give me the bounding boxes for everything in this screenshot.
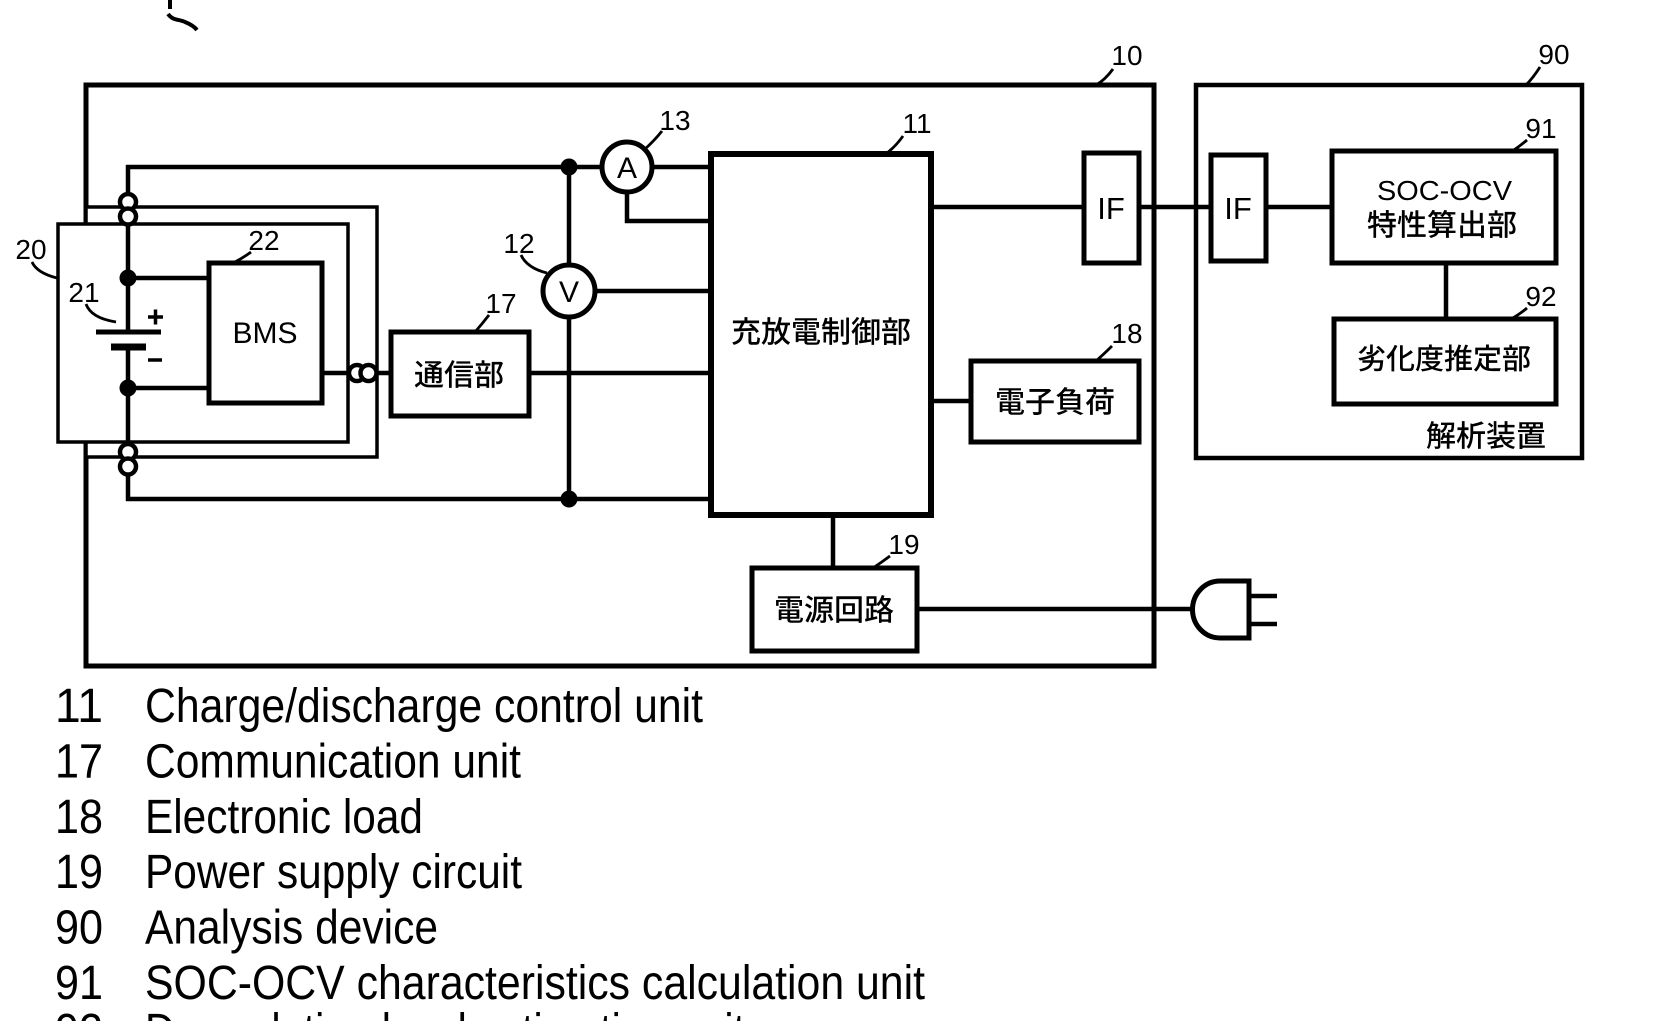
label 12 leader: [521, 255, 547, 273]
wire: ammeter bottom loop: [627, 191, 716, 221]
svg-text:90: 90: [55, 902, 103, 955]
svg-text:13: 13: [659, 105, 690, 136]
label 92 leader: [1511, 308, 1527, 319]
wire: communication unit to control unit: [524, 371, 716, 376]
communication unit text 通信部: [415, 360, 503, 388]
wire: battery + vertical: [126, 165, 131, 332]
svg-text:11: 11: [902, 108, 931, 139]
voltmeter 12: [543, 265, 595, 317]
svg-text:A: A: [617, 152, 637, 185]
connector contact 1: [120, 194, 136, 210]
battery minus sign: [148, 358, 162, 362]
junction node battery +: [120, 270, 137, 287]
svg-text:Degradation level estimation u: Degradation level estimation unit: [145, 1005, 745, 1021]
battery cell 21 minus plate: [111, 344, 146, 351]
wire: control unit to power supply circuit: [831, 511, 836, 573]
svg-text:20: 20: [15, 234, 46, 265]
label 21 leader: [86, 304, 116, 322]
figure number leader (cropped): [168, 0, 197, 30]
label 19 leader: [873, 556, 890, 568]
label 18 leader: [1096, 346, 1112, 361]
svg-text:Electronic load: Electronic load: [145, 791, 423, 844]
svg-text:17: 17: [55, 735, 103, 788]
inner wiring-harness box (unlabeled): [86, 207, 377, 457]
connector contact 2: [120, 209, 136, 225]
svg-text:SOC-OCV characteristics calcul: SOC-OCV characteristics calculation unit: [145, 957, 925, 1010]
IF box (analysis side): [1211, 155, 1266, 261]
analysis device text 解析装置: [1427, 421, 1545, 449]
wire: IF to IF across boxes: [1135, 205, 1215, 210]
svg-text:22: 22: [248, 225, 279, 256]
svg-text:Communication unit: Communication unit: [145, 735, 521, 788]
battery cell 21 plus plate: [96, 330, 161, 335]
svg-text:Charge/discharge control unit: Charge/discharge control unit: [145, 680, 703, 733]
wire: control unit to IF: [927, 205, 1087, 210]
SOC-OCV characteristics calc text 特性算出部: [1368, 210, 1516, 238]
svg-text:Power supply circuit: Power supply circuit: [145, 846, 522, 899]
degradation estimation unit box 92: [1334, 319, 1556, 404]
svg-text:11: 11: [55, 680, 103, 733]
svg-text:10: 10: [1111, 40, 1142, 71]
wire: top rail from battery to ammeter: [126, 165, 603, 170]
svg-text:21: 21: [68, 277, 99, 308]
svg-text:12: 12: [503, 228, 534, 259]
power supply circuit box 19: [752, 568, 917, 651]
svg-text:Analysis device: Analysis device: [145, 902, 438, 955]
junction node bottom rail/voltmeter: [561, 491, 578, 508]
wire: voltmeter branch vertical: [567, 165, 572, 266]
label 11 leader: [887, 136, 903, 153]
charge/discharge control unit text 充放電制御部: [732, 317, 910, 345]
label 20 leader: [32, 262, 57, 278]
svg-text:91: 91: [1525, 113, 1556, 144]
svg-text:17: 17: [485, 288, 516, 319]
connector contact 5: [349, 365, 365, 381]
wire: BMS + sense: [126, 276, 214, 281]
wire: control unit to electronic load: [927, 399, 976, 404]
svg-text:19: 19: [55, 846, 103, 899]
analysis device box 90: [1196, 85, 1582, 458]
wire: box91 to box92: [1444, 258, 1449, 324]
electronic load box 18: [971, 361, 1139, 442]
svg-text:18: 18: [1111, 318, 1142, 349]
svg-text:IF: IF: [1224, 191, 1252, 226]
charge/discharge control unit box 11: [711, 154, 931, 515]
wire: IF to SOC-OCV unit: [1262, 205, 1337, 210]
outer system box 10: [86, 85, 1154, 666]
ammeter 13: [602, 142, 652, 192]
wire: BMS - sense: [126, 386, 214, 391]
label 22 leader: [233, 252, 251, 263]
svg-text:V: V: [559, 276, 579, 309]
AC plug: [1193, 581, 1250, 638]
power supply circuit text 電源回路: [776, 595, 893, 623]
BMS box 22: [209, 263, 322, 403]
svg-text:19: 19: [888, 529, 919, 560]
svg-text:BMS: BMS: [232, 317, 297, 350]
wire: power supply circuit to plug: [912, 607, 1196, 612]
junction node top rail/voltmeter: [561, 159, 578, 176]
wire: voltmeter to control unit: [594, 289, 716, 294]
svg-text:92: 92: [55, 1005, 103, 1021]
svg-text:18: 18: [55, 791, 103, 844]
IF box (system side): [1084, 153, 1139, 263]
wire: battery - vertical down to bottom rail: [126, 347, 131, 501]
svg-text:SOC-OCV: SOC-OCV: [1377, 175, 1512, 206]
wire: BMS to communication unit: [319, 371, 396, 376]
communication unit box 17: [391, 332, 529, 416]
battery pack box 20: [58, 224, 348, 442]
label 10 leader: [1096, 69, 1113, 85]
label 13 leader: [645, 131, 662, 149]
wire: ammeter to control unit: [651, 165, 716, 170]
electronic load text 電子負荷: [997, 387, 1114, 415]
svg-text:IF: IF: [1097, 191, 1125, 226]
svg-text:90: 90: [1538, 39, 1569, 70]
degradation estimation text 劣化度推定部: [1358, 344, 1530, 371]
connector contact 3: [120, 444, 136, 460]
junction node battery -: [120, 380, 137, 397]
SOC-OCV characteristics calculation unit box 91: [1332, 151, 1556, 263]
svg-text:92: 92: [1525, 281, 1556, 312]
connector contact 4: [120, 459, 136, 475]
battery plus sign: [148, 310, 163, 325]
label 17 leader: [475, 315, 489, 332]
label 90 leader: [1526, 67, 1540, 85]
wire: bottom rail: [126, 497, 716, 502]
connector contact 6: [361, 365, 377, 381]
label 91 leader: [1511, 140, 1527, 152]
svg-text:91: 91: [55, 957, 103, 1010]
